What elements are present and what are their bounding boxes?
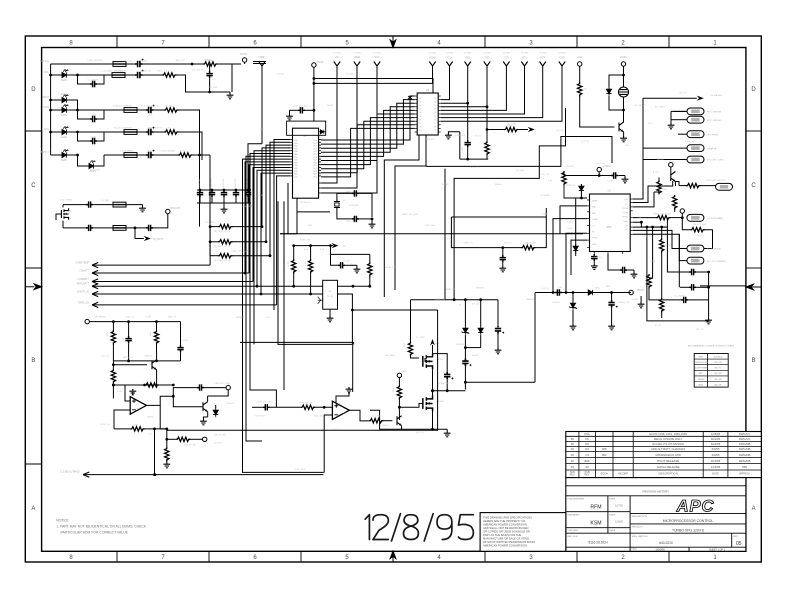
connector oval V2: [687, 131, 719, 138]
capacitor C8: [137, 127, 164, 136]
wire stair B: [454, 108, 565, 300]
svg-text:RECOMMENDED SOURCE OF SUPPLY C: RECOMMENDED SOURCE OF SUPPLY CHART: [688, 344, 735, 347]
svg-text:RA1: RA1: [294, 142, 298, 145]
svg-text:(2,3 B8) CUTBACK: (2,3 B8) CUTBACK: [60, 471, 80, 474]
wire u3 bot2: [608, 254, 620, 270]
resistor R7: [210, 240, 267, 248]
svg-text:4.7K: 4.7K: [305, 261, 307, 266]
transistor Q2: [671, 172, 676, 187]
resistor R35: [488, 125, 535, 132]
terminal J3: [312, 61, 324, 121]
svg-text:0.1UF: 0.1UF: [344, 261, 350, 263]
transistor Q8: [203, 396, 208, 417]
svg-text:(8,6 D5) AC BACKFD: (8,6 D5) AC BACKFD: [706, 179, 726, 182]
svg-text:DWG/DB: DWG/DB: [739, 447, 751, 451]
svg-text:0.1UF_50V_20%: 0.1UF_50V_20%: [292, 106, 307, 108]
svg-text:0.1_X2: 0.1_X2: [655, 325, 662, 327]
svg-text:PWM_DAC: PWM_DAC: [685, 140, 696, 143]
wire long v278: [278, 201, 352, 344]
svg-text:0.022_FILM: 0.022_FILM: [425, 225, 436, 227]
wire to right border: [700, 285, 746, 287]
svg-text:AC IN SENSE: AC IN SENSE: [707, 248, 721, 251]
svg-text:MUR110: MUR110: [566, 166, 575, 168]
svg-text:RC1: RC1: [313, 143, 317, 145]
svg-text:TO D/A DRV: TO D/A DRV: [710, 94, 723, 97]
svg-text:SCLK: SCLK: [446, 57, 453, 60]
svg-text:AMERICAN POWER CONVERSION: AMERICAN POWER CONVERSION: [483, 544, 527, 548]
svg-text:RB1: RB1: [294, 157, 298, 159]
svg-text:12/7/95: 12/7/95: [615, 505, 624, 508]
wire oa1 out2: [173, 396, 202, 407]
svg-text:150UF: 150UF: [141, 61, 148, 63]
svg-text:HEREIN ARE THE PROPERTY OF: HEREIN ARE THE PROPERTY OF: [483, 519, 526, 523]
svg-text:RD0: RD0: [313, 162, 317, 164]
svg-text:R17: R17: [583, 89, 588, 91]
wire cluster left: [459, 132, 461, 159]
wire arrow drop b: [486, 105, 489, 140]
wire u7 out2: [0, 0, 1, 1]
svg-text:22PF_CD: 22PF_CD: [346, 221, 355, 223]
svg-text:CHOKE: CHOKE: [126, 151, 134, 153]
resistor R2: [162, 73, 230, 94]
svg-text:RC4: RC4: [313, 151, 317, 153]
inductor L5: [104, 153, 137, 158]
terminal J2: [166, 207, 181, 214]
svg-text:74HC573: 74HC573: [426, 139, 435, 141]
svg-text:0.1_250VAC: 0.1_250VAC: [87, 79, 99, 82]
svg-text:D: D: [31, 87, 36, 93]
wire signal SHUTD_IN: [77, 291, 311, 297]
wire u1 left e: [262, 148, 290, 227]
notes: [56, 519, 147, 535]
svg-text:0.01_1KV_20%_CD: 0.01_1KV_20%_CD: [141, 106, 159, 108]
svg-text:RNET_4.7K: RNET_4.7K: [505, 126, 516, 128]
svg-text:PART AS THE BASIS FOR THE: PART AS THE BASIS FOR THE: [483, 533, 521, 537]
title block revision table grid: [566, 432, 762, 552]
capacitor C1: [135, 59, 193, 68]
svg-text:PRODUCT: PRODUCT: [632, 527, 643, 529]
inductor L4: [78, 130, 138, 135]
misc reference labels 2: [87, 60, 707, 447]
connector oval V5: [687, 214, 724, 221]
svg-text:PILOT RELEASE: PILOT RELEASE: [657, 459, 679, 463]
wire q4 gate: [425, 358, 427, 361]
svg-text:RB0: RB0: [294, 154, 298, 156]
svg-text:0.1_250V: 0.1_250V: [209, 87, 218, 89]
svg-text:VCC: VCC: [374, 56, 379, 59]
wire u3 pin4: [566, 233, 587, 292]
inductor L8: [253, 57, 266, 64]
svg-text:15K_1%: 15K_1%: [541, 174, 549, 176]
svg-text:VREF: VREF: [354, 56, 361, 59]
capacitor C39: [252, 402, 301, 411]
svg-text:ECOS 1036, 1061, 1081,1093: ECOS 1036, 1061, 1081,1093: [649, 432, 687, 436]
wire rail 227: [640, 226, 667, 229]
svg-text:RTS: RTS: [522, 57, 527, 60]
svg-text:0.1UF: 0.1UF: [145, 317, 151, 319]
svg-text:MFG. PART NO.: MFG. PART NO.: [632, 535, 649, 538]
wire signal ONBATT: [79, 270, 249, 276]
svg-text:1N4148: 1N4148: [441, 184, 449, 186]
wire rail u3 a: [451, 208, 546, 217]
svg-text:D5: D5: [419, 116, 421, 118]
svg-text:LED5: LED5: [61, 160, 67, 162]
svg-text:U3: U3: [607, 190, 611, 193]
power arrow P4: [321, 56, 380, 193]
svg-text:1K_1/8W_5%_CF: 1K_1/8W_5%_CF: [214, 246, 231, 248]
capacitor C18: [290, 107, 314, 113]
svg-text:DWG/DB: DWG/DB: [739, 459, 751, 463]
wire u5 in2: [311, 293, 323, 295]
opamp U6: [130, 397, 146, 415]
wire q4 src: [431, 369, 434, 396]
wire u1 fan long b: [250, 154, 290, 408]
svg-text:10K_1%: 10K_1%: [644, 236, 652, 238]
svg-text:RC6: RC6: [313, 157, 317, 159]
svg-text:0.1UF: 0.1UF: [347, 264, 353, 266]
wire u2 bus 2: [321, 103, 415, 148]
svg-text:0.1UF: 0.1UF: [90, 161, 96, 163]
wire u2 bus 4: [321, 110, 415, 156]
svg-text:OVERTEMP: OVERTEMP: [76, 262, 90, 265]
resistor R21: [647, 274, 681, 300]
wire ps top: [410, 300, 412, 342]
terminal J7: [620, 56, 627, 75]
power arrow P3: [321, 56, 361, 188]
svg-text:CHECKED: CHECKED: [568, 530, 579, 532]
svg-text:1: 1: [713, 555, 717, 561]
svg-text:Q3: Q3: [434, 109, 437, 111]
svg-text:R14: R14: [663, 189, 668, 191]
latch U2: [408, 90, 441, 135]
wire bl rail2: [113, 360, 180, 363]
capacitor C7: [78, 132, 105, 144]
svg-text:1K_1/8W_5%_CF: 1K_1/8W_5%_CF: [214, 260, 231, 262]
resistor R20: [660, 298, 664, 318]
inductor L2: [78, 73, 126, 78]
wire chg arrow: [135, 228, 164, 241]
svg-text:RA2: RA2: [294, 145, 298, 148]
svg-text:05: 05: [571, 442, 575, 446]
wire u5 out ext: [167, 310, 438, 430]
ground G6: [354, 265, 361, 273]
svg-text:4/9/95: 4/9/95: [712, 453, 720, 457]
svg-text:RA3: RA3: [294, 147, 298, 150]
svg-text:1000UF_25V: 1000UF_25V: [618, 302, 630, 304]
svg-text:05: 05: [736, 541, 742, 547]
plot date 12/8/95: [365, 514, 473, 541]
transistor Q1: [61, 205, 72, 228]
wire q1 gate: [56, 214, 61, 220]
zener D11: [569, 293, 577, 325]
svg-text:+12V: +12V: [577, 56, 583, 59]
svg-text:SHEET 1 OF 1: SHEET 1 OF 1: [709, 548, 726, 551]
svg-text:RA0: RA0: [294, 139, 298, 142]
svg-text:2: 2: [621, 40, 625, 46]
svg-text:4.7K: 4.7K: [320, 249, 325, 251]
svg-text:VIN: VIN: [625, 200, 629, 202]
capacitor C26: [620, 267, 634, 273]
svg-text:OSC: OSC: [294, 176, 299, 178]
capacitor C23: [331, 254, 357, 268]
svg-text:RNET_2.2K_16DIP: RNET_2.2K_16DIP: [653, 214, 672, 216]
cap bank C10-C14: [197, 189, 251, 203]
svg-text:A: A: [752, 506, 756, 512]
signal arrow R1: [643, 94, 723, 101]
svg-text:AC OUT CURRENT: AC OUT CURRENT: [707, 260, 727, 263]
svg-text:A0: A0: [585, 465, 589, 469]
svg-text:REF: REF: [699, 356, 704, 358]
svg-text:4.7K: 4.7K: [166, 128, 171, 130]
wire oval feed5: [643, 159, 687, 161]
wire rail 382: [465, 381, 535, 383]
wire u1 fan long a: [254, 151, 290, 345]
svg-text:RB2: RB2: [294, 160, 298, 162]
svg-text:1UF_50V: 1UF_50V: [594, 257, 603, 259]
svg-text:D0: D0: [419, 98, 421, 100]
svg-text:MANUFACTURE OR SALE OF ITEMS: MANUFACTURE OR SALE OF ITEMS: [483, 537, 529, 541]
svg-text:INV CNTL TURN: INV CNTL TURN: [707, 160, 724, 162]
svg-text:360K_1%: 360K_1%: [168, 317, 177, 319]
resistor R10: [288, 246, 296, 287]
svg-text:U2: U2: [426, 90, 430, 92]
capacitor C30: [555, 287, 563, 296]
resistor R3: [164, 108, 200, 120]
svg-text:10K: 10K: [374, 266, 376, 270]
wire u3 top rail: [564, 174, 611, 177]
svg-text:RC7: RC7: [313, 160, 317, 162]
wire left rail: [49, 64, 52, 155]
svg-text:2/10/95: 2/10/95: [711, 459, 721, 463]
svg-text:(2,3 B6): (2,3 B6): [353, 53, 360, 55]
svg-text:8: 8: [69, 555, 73, 561]
resistor R1: [192, 62, 241, 66]
svg-text:47K_2W_5%: 47K_2W_5%: [192, 70, 204, 72]
svg-text:MBR360: MBR360: [476, 288, 485, 290]
wire u1 fan 4: [249, 165, 290, 273]
svg-text:A: A: [31, 506, 35, 512]
wire u3 pin3: [553, 219, 587, 293]
svg-text:ECO/EL PS V/S DESIGN: ECO/EL PS V/S DESIGN: [652, 442, 683, 446]
svg-text:DWG/DB: DWG/DB: [739, 442, 751, 446]
svg-text:REV.: REV.: [734, 536, 739, 538]
power arrow P1: [259, 56, 265, 144]
LED D5: [51, 149, 79, 162]
wire bl rail3: [112, 384, 157, 387]
ground G1: [204, 60, 233, 99]
svg-text:C36: C36: [123, 337, 125, 342]
svg-text:ENGINEER: ENGINEER: [568, 515, 580, 517]
svg-text:+VCHG: +VCHG: [603, 165, 611, 168]
wire feed rail: [642, 98, 644, 159]
centering arrow bottom: [390, 551, 396, 562]
svg-text:AC/N: AC/N: [43, 106, 49, 109]
capacitor C38: [172, 384, 226, 397]
svg-text:2N4403: 2N4403: [144, 356, 152, 358]
svg-text:RB7: RB7: [294, 174, 298, 176]
svg-text:VBATT: VBATT: [637, 289, 645, 292]
svg-text:0.1UF_50V: 0.1UF_50V: [455, 135, 466, 137]
svg-text:6: 6: [253, 40, 257, 46]
svg-text:6A05: 6A05: [606, 285, 612, 288]
inductor L3: [78, 108, 138, 113]
svg-text:RLY_DRV: RLY_DRV: [205, 222, 215, 224]
zone tick marks: [117, 36, 669, 562]
wire loop a: [370, 410, 402, 429]
svg-text:RESET: RESET: [327, 105, 334, 107]
wire u5 out right: [338, 285, 372, 288]
svg-text:2.5A_250V: 2.5A_250V: [122, 60, 133, 63]
svg-text:INCORP: INCORP: [618, 471, 628, 475]
capacitor C29: [681, 297, 709, 303]
wire stair C: [444, 169, 446, 300]
svg-text:CHOKE: CHOKE: [124, 106, 132, 108]
svg-text:SHUTD_IN: SHUTD_IN: [77, 291, 89, 294]
wire bl drop: [180, 322, 182, 345]
svg-text:APPROV.: APPROV.: [739, 471, 751, 475]
svg-text:KSM: KSM: [590, 521, 601, 527]
svg-text:RLY2 DRIVER: RLY2 DRIVER: [707, 112, 722, 114]
svg-text:1N4148: 1N4148: [494, 184, 502, 186]
wire u3 pin5: [571, 240, 587, 275]
svg-text:LED2: LED2: [61, 94, 67, 96]
capacitor C17: [135, 214, 168, 231]
svg-text:01: 01: [571, 465, 575, 469]
wire u1 fan 2: [257, 170, 290, 287]
svg-text:LF347: LF347: [117, 391, 124, 393]
inductor L1: [113, 62, 135, 67]
svg-text:MCLR: MCLR: [317, 61, 324, 64]
wire u3 r7: [633, 230, 687, 248]
svg-text:AMERICAN POWER CONVERSION: AMERICAN POWER CONVERSION: [483, 522, 527, 526]
wire u5 out: [338, 294, 438, 311]
svg-text:7: 7: [161, 555, 165, 561]
svg-text:RB5: RB5: [294, 168, 298, 170]
resistor R11: [305, 246, 313, 294]
svg-text:B/O 08: B/O 08: [715, 362, 723, 364]
svg-text:GATE: GATE: [401, 370, 407, 373]
svg-text:10K: 10K: [260, 129, 264, 131]
svg-text:R23: R23: [393, 387, 395, 392]
resistor R22: [404, 342, 419, 359]
svg-text:(2,3 B6): (2,3 B6): [429, 53, 436, 55]
svg-text:RA4: RA4: [294, 150, 298, 153]
wire rr b: [649, 227, 653, 278]
LED D3: [51, 104, 79, 117]
transistor Q7: [113, 352, 156, 385]
svg-text:DSR: DSR: [559, 57, 564, 60]
capacitor C36: [123, 322, 132, 361]
terminal J5: [669, 163, 673, 173]
svg-text:B2F: B2F: [585, 459, 590, 463]
wire u2 top feed: [313, 77, 434, 93]
svg-text:DESCRIPTION: DESCRIPTION: [659, 471, 678, 475]
wire u3 left down: [575, 198, 577, 256]
wire rr rail: [708, 272, 710, 318]
power arrow drain: [430, 339, 440, 354]
ground G14: [570, 324, 577, 330]
svg-text:6/22/95: 6/22/95: [711, 442, 721, 446]
svg-text:RB3: RB3: [294, 162, 298, 164]
svg-text:TURN_ON: TURN_ON: [77, 301, 89, 304]
LED D1: [51, 69, 79, 82]
wire rail u3 b: [451, 217, 521, 248]
capacitor C15: [63, 201, 113, 207]
connector oval V4: [687, 156, 724, 163]
svg-text:Q9: Q9: [434, 130, 437, 132]
svg-text:75K_1%_MF: 75K_1%_MF: [184, 445, 196, 447]
transistor Q6: [397, 416, 404, 426]
svg-text:PIC16C74: PIC16C74: [300, 202, 311, 204]
svg-text:22_OHM: 22_OHM: [508, 124, 516, 126]
svg-text:49.9_1%: 49.9_1%: [416, 432, 424, 434]
capacitor C28: [680, 284, 710, 290]
svg-text:+5V: +5V: [335, 56, 340, 59]
svg-text:3.3K: 3.3K: [548, 180, 553, 182]
wire lc rail: [411, 298, 499, 301]
title block part numbers: [568, 516, 742, 551]
wire u5 loop top: [329, 244, 370, 254]
svg-text:0.1UF_250_10%: 0.1UF_250_10%: [256, 402, 272, 404]
svg-text:(6,2 C4): (6,2 C4): [581, 141, 589, 143]
wire u7 out: [349, 410, 369, 421]
svg-text:220U: 220U: [148, 128, 153, 130]
svg-text:BUZZ: BUZZ: [620, 56, 627, 59]
svg-text:AC/L: AC/L: [44, 71, 50, 74]
svg-text:DATE: DATE: [712, 471, 719, 475]
wire from row2: [231, 64, 233, 92]
svg-text:SDAT: SDAT: [429, 57, 436, 60]
svg-text:XFMR_T1: XFMR_T1: [445, 289, 455, 291]
wire signal LOWBATT: [78, 278, 253, 284]
capacitor C25: [591, 254, 597, 264]
svg-text:R30: R30: [134, 425, 139, 427]
svg-text:RT/CT: RT/CT: [567, 222, 574, 224]
svg-text:MICROPROCESSOR CONTROL: MICROPROCESSOR CONTROL: [663, 519, 714, 523]
svg-text:12/8/95: 12/8/95: [711, 432, 721, 436]
connector oval V6: [687, 245, 721, 252]
svg-text:E5: E5: [585, 442, 589, 446]
svg-text:RV_275: RV_275: [696, 329, 704, 331]
terminal J9: [629, 289, 645, 295]
svg-text:REF. FILE:: REF. FILE:: [568, 536, 579, 538]
svg-text:11.059MHZ: 11.059MHZ: [349, 205, 360, 207]
svg-text:B0_RLY_DRV: B0_RLY_DRV: [694, 224, 707, 226]
svg-text:B/O 08: B/O 08: [715, 384, 723, 386]
arrow ref labels: [333, 53, 565, 55]
svg-text:FUSE_HOLDER: FUSE_HOLDER: [88, 60, 103, 62]
resistor R13: [562, 171, 587, 198]
svg-text:2.2_1/2W: 2.2_1/2W: [416, 337, 425, 339]
svg-text:R26: R26: [150, 331, 152, 336]
resistor R30: [114, 425, 167, 432]
svg-text:12/8/95: 12/8/95: [615, 521, 624, 524]
signal arrow T3: [441, 57, 490, 107]
svg-text:DWG/DB: DWG/DB: [739, 453, 751, 457]
svg-text:RD5: RD5: [313, 176, 317, 178]
wire rr a: [647, 227, 709, 321]
svg-text:03: 03: [571, 453, 575, 457]
svg-text:(2,3 B6): (2,3 B6): [483, 53, 490, 55]
svg-text:CHOKE: CHOKE: [124, 128, 132, 130]
wire u5 down: [351, 310, 353, 344]
svg-text:0.1UF: 0.1UF: [90, 137, 96, 139]
svg-text:Q4: Q4: [434, 112, 437, 114]
wire u2 bus 3: [321, 107, 415, 153]
wire rail 472ext: [322, 471, 325, 473]
svg-text:(6,2 B3): (6,2 B3): [214, 443, 221, 445]
svg-text:FET: FET: [699, 373, 704, 375]
